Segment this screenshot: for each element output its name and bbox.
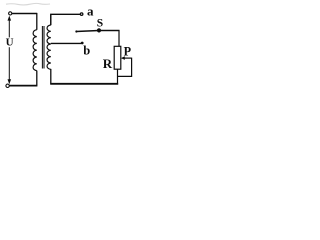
svg-text:P: P (124, 44, 132, 58)
wire (secondary top lead) (50, 14, 52, 25)
terminal b (circle) (81, 42, 84, 45)
wire (switch to R top) (118, 30, 120, 46)
wire (top input to primary) (12, 13, 37, 15)
wire (secondary bottom rail) (50, 83, 118, 85)
svg-text:a: a (87, 3, 94, 18)
faint scan smudge (decorative noise reproduced) (6, 3, 50, 5)
svg-text:S: S (97, 17, 103, 29)
wire (secondary centre tap to terminal b) (51, 42, 81, 44)
inductor L1 (transformer primary coil) (33, 30, 37, 71)
transformer core (two vertical lines) (42, 26, 44, 69)
wire (wiper loop right and down to R bottom lead) (118, 58, 132, 77)
terminal a (circle) (80, 13, 83, 16)
inductor L2 (transformer secondary coil) (47, 25, 51, 69)
wire (primary top lead) (36, 13, 38, 30)
svg-text:R: R (103, 56, 113, 71)
terminal (top input) (9, 12, 12, 15)
wire (R bottom lead) (117, 69, 119, 84)
wiper arrow P (arrowhead + stem) (121, 56, 132, 60)
voltage arrow U (lower segment with arrowhead) (8, 47, 12, 84)
voltage arrow U (upper segment with arrowhead) (8, 16, 12, 38)
terminal (bottom input) (6, 84, 9, 87)
switch S contact dot (97, 28, 101, 32)
wire (secondary top to terminal a) (50, 14, 80, 25)
resistor R (box) (114, 46, 121, 69)
wire (secondary bottom lead) (50, 69, 52, 84)
wire (bottom input wire) (9, 85, 37, 87)
svg-text:b: b (83, 43, 90, 57)
wire (switch branch) (76, 31, 120, 32)
svg-text:U: U (6, 37, 14, 49)
switch S left stub dot (75, 30, 77, 32)
wire (primary bottom lead) (36, 71, 38, 86)
